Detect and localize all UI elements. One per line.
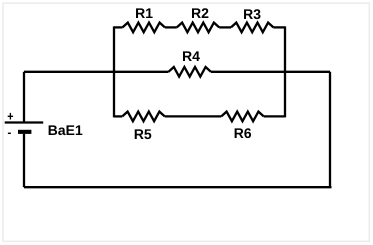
wire: top branch lead out of R3 [273,26,285,28]
battery BaE1 positive plate [5,121,44,123]
battery minus polarity mark [8,132,11,134]
wire: bottom branch lead out of R6 [264,115,285,117]
wire: top branch between R1 and R2 [165,26,177,28]
wire: middle branch right segment (R4 to right rail) [211,71,330,73]
wire: middle branch left segment (battery positive to R4) [24,71,169,73]
resistor R6 [221,112,263,122]
battery BaE1 negative plate [18,130,31,134]
wire: right vertical of parallel block (node B) [284,26,286,117]
resistor R3 [231,23,273,33]
wire: right rail vertical [329,72,331,187]
battery plus polarity mark [8,113,13,120]
wire: bottom branch between R5 and R6 [165,115,222,117]
wire: top branch lead into R1 [114,26,123,28]
wire: bottom return wire [24,186,332,188]
resistor R2 [177,23,219,33]
label R1 [136,8,153,18]
wire: battery positive lead [23,72,25,122]
wire: bottom branch lead into R5 [114,115,122,117]
resistor R4 [169,67,211,77]
resistor R5 [122,112,164,122]
label R2 [192,8,208,18]
wire: battery negative lead [23,134,25,187]
wire: top branch between R2 and R3 [219,26,231,28]
resistor R1 [123,23,165,33]
label R3 [244,9,260,19]
label BaE1 [49,125,83,135]
label R4 [183,51,200,61]
wire: left vertical of parallel block (node A) [113,26,115,117]
label R5 [135,129,152,139]
label R6 [235,128,251,138]
